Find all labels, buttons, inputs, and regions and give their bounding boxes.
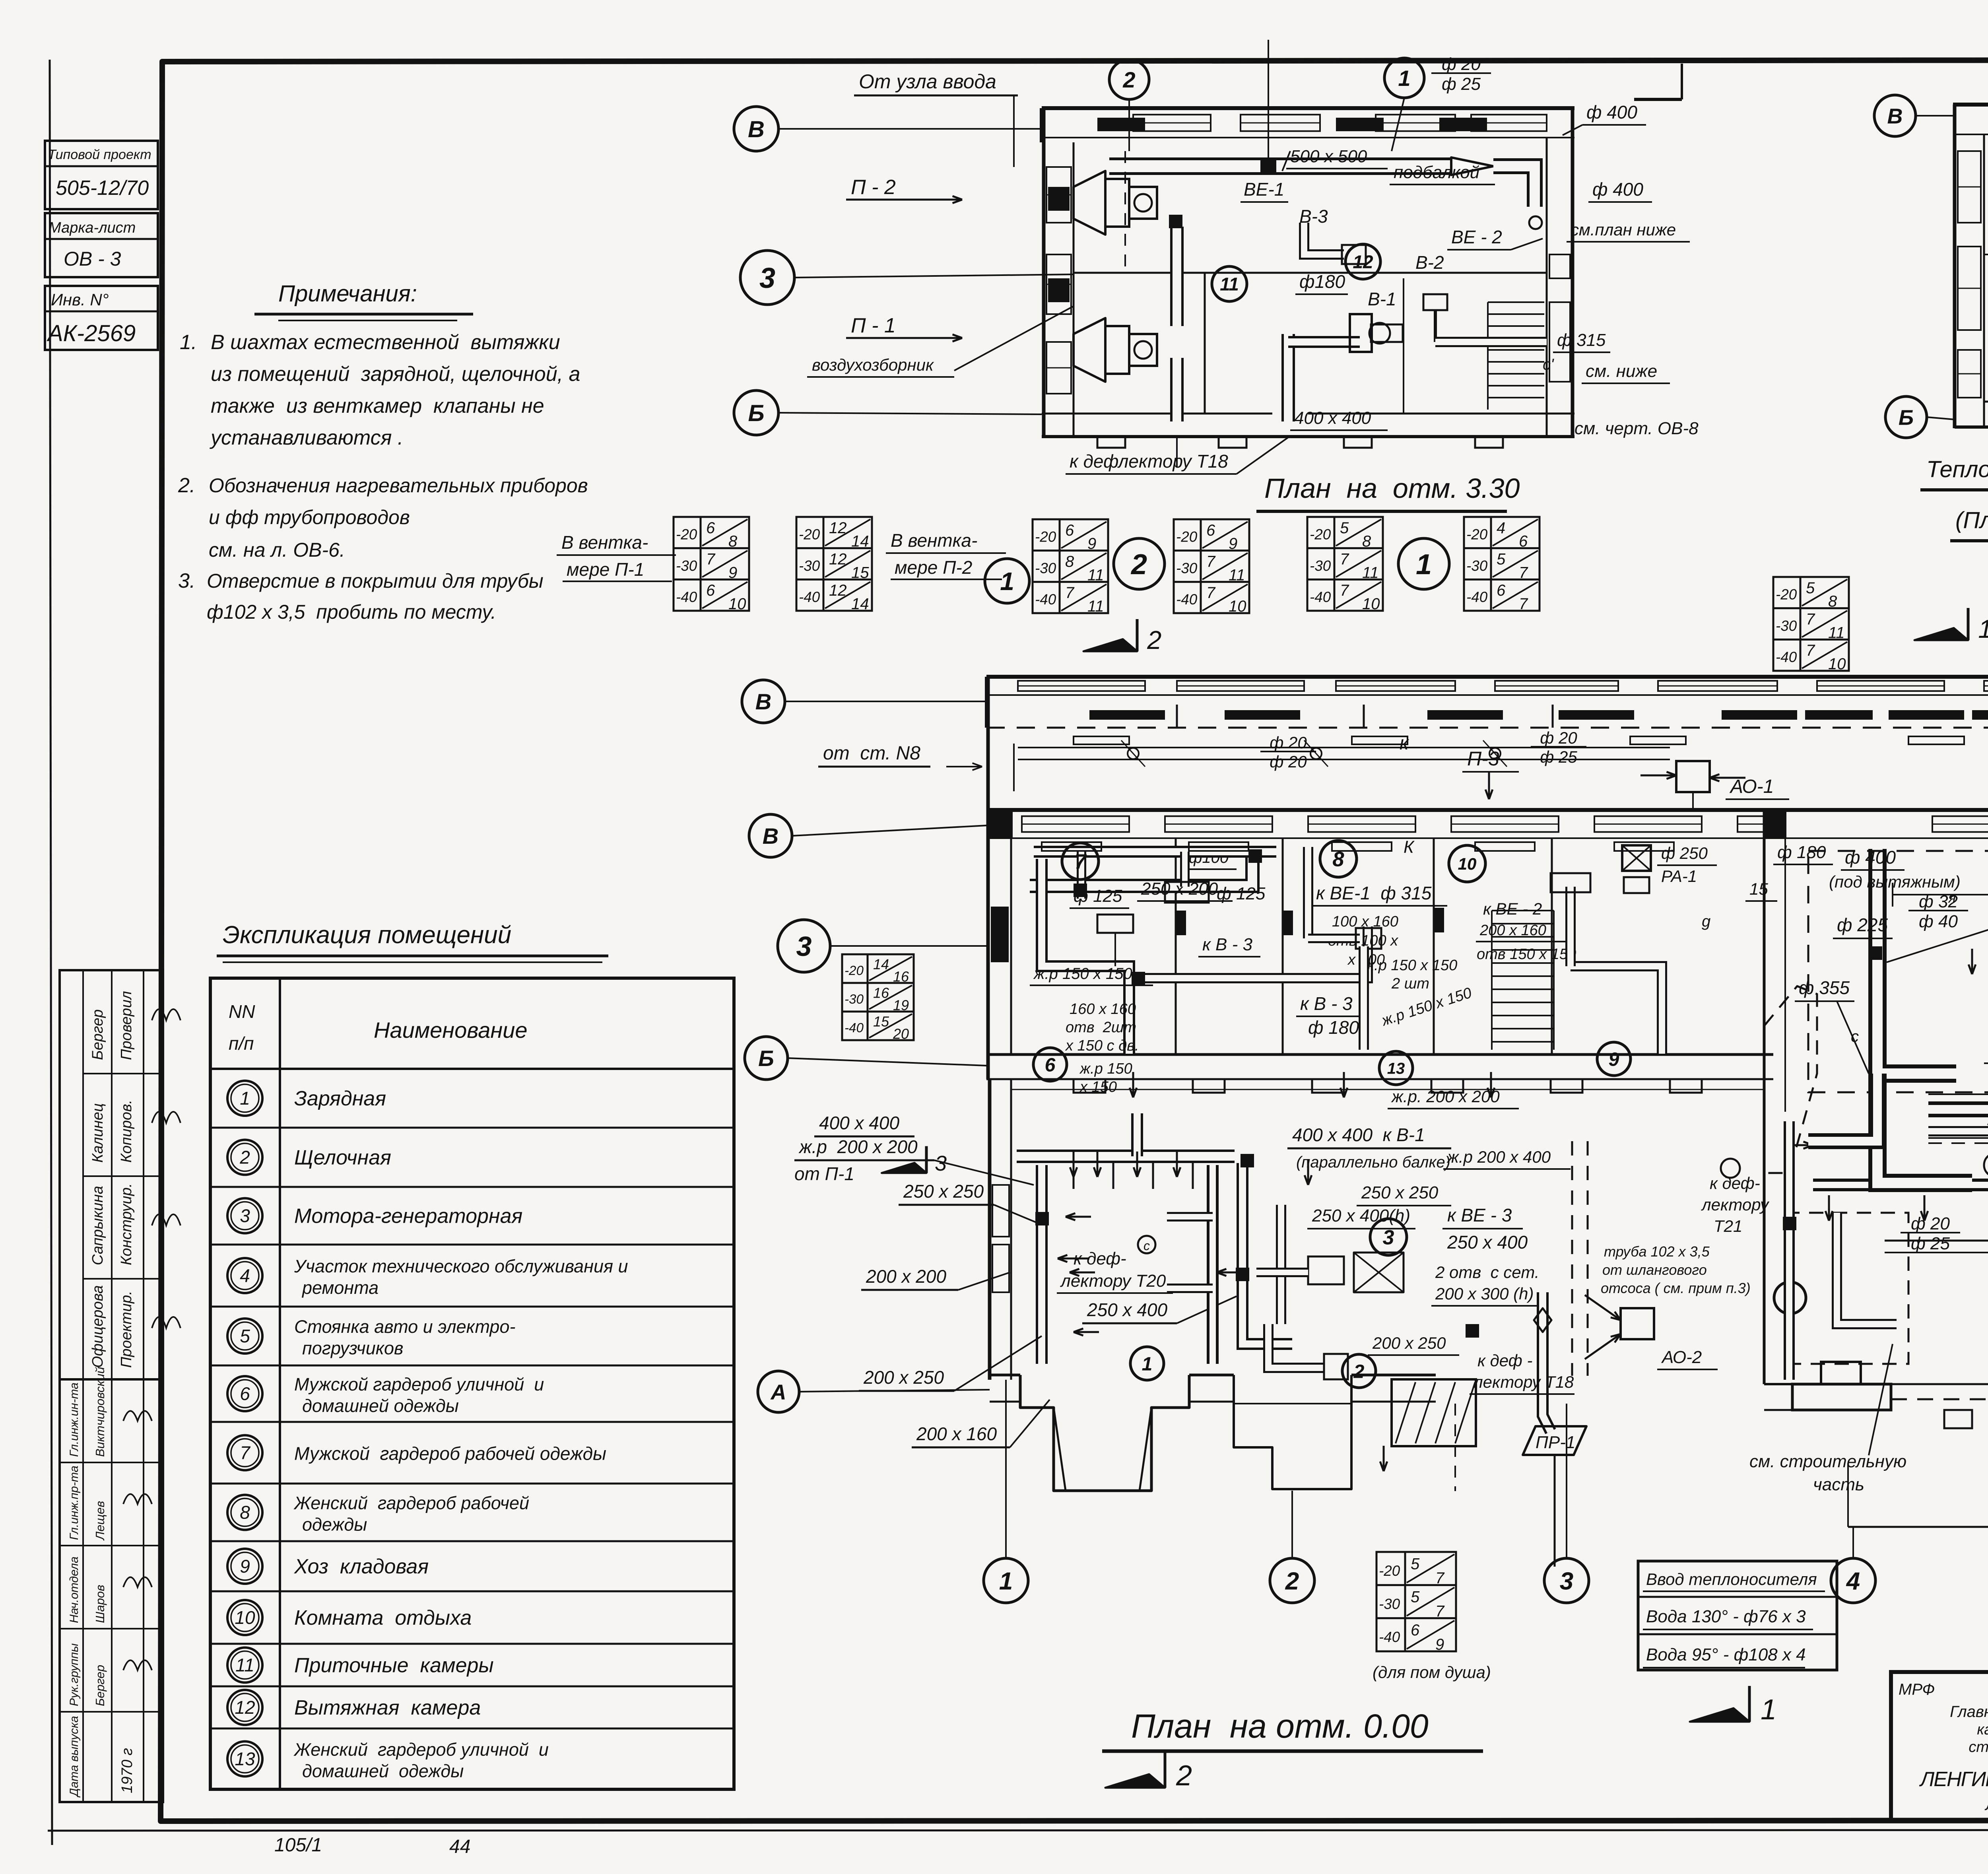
extra junction ticks top corridor	[1176, 705, 1178, 728]
title block frame	[1891, 1672, 1988, 1820]
axis circle В big lower	[749, 814, 792, 857]
svg-text:План на отм. 3.30: План на отм. 3.30	[1264, 473, 1520, 504]
radiators top band big plan	[1074, 736, 1129, 744]
ПР-1 parallelogram	[1523, 1426, 1586, 1455]
svg-text:В: В	[1887, 104, 1903, 128]
svg-text:и фф трубопроводов: и фф трубопроводов	[209, 506, 410, 528]
svg-text:ф 32: ф 32	[1919, 892, 1958, 911]
svg-text:400 х 400: 400 х 400	[819, 1113, 899, 1133]
svg-text:ж.р 150 х 150: ж.р 150 х 150	[1033, 965, 1132, 983]
svg-text:ж.р 200 х 200: ж.р 200 х 200	[798, 1136, 918, 1157]
svg-text:Офицерова: Офицерова	[89, 1285, 106, 1368]
svg-text:В-2: В-2	[1415, 252, 1444, 273]
plan 3.30 main duct	[1109, 157, 1451, 175]
svg-text:-40: -40	[845, 1021, 864, 1035]
svg-text:Гл.инж.ин-та: Гл.инж.ин-та	[68, 1383, 81, 1457]
room circle 7 big	[1062, 843, 1099, 880]
plan 3.30 fan B-2	[1423, 294, 1447, 310]
axis circle Б plan330	[734, 390, 779, 435]
svg-text:12: 12	[829, 551, 847, 568]
room circle 3 big	[1370, 1219, 1407, 1255]
svg-text:-30: -30	[1035, 560, 1056, 576]
svg-text:К: К	[1404, 837, 1415, 857]
svg-text:6: 6	[1411, 1622, 1420, 1639]
svg-text:АО-1: АО-1	[1729, 776, 1774, 797]
svg-text:16: 16	[873, 985, 889, 1001]
svg-text:250 х 400: 250 х 400	[1447, 1232, 1528, 1253]
svg-text:Нач.отдела: Нач.отдела	[68, 1557, 81, 1623]
svg-text:9: 9	[240, 1556, 250, 1577]
plan 3.30 top wall with windows	[1042, 106, 1574, 110]
svg-text:1: 1	[240, 1088, 250, 1109]
svg-text:6: 6	[1206, 522, 1215, 539]
svg-text:отсоса ( см. прим п.3): отсоса ( см. прим п.3)	[1601, 1280, 1751, 1296]
svg-text:ВЕ - 2: ВЕ - 2	[1451, 227, 1502, 247]
svg-text:х 150 с дв.: х 150 с дв.	[1065, 1037, 1139, 1054]
hall small unit circle	[1984, 1153, 1988, 1177]
svg-text:12: 12	[1353, 252, 1373, 272]
bottom axis circle 1	[984, 1558, 1028, 1603]
svg-text:4: 4	[240, 1265, 250, 1286]
svg-text:Б: Б	[1899, 406, 1914, 429]
svg-text:к В - 3: к В - 3	[1202, 935, 1252, 954]
svg-text:АК-2569: АК-2569	[47, 320, 136, 346]
plan TS bottom wall	[1955, 425, 1988, 429]
svg-text:Стоянка авто и электро-: Стоянка авто и электро-	[294, 1317, 515, 1337]
svg-text:400 х 400 к В-1: 400 х 400 к В-1	[1292, 1124, 1425, 1145]
plan 3.30 internal wall	[1074, 272, 1547, 274]
explication row 5	[210, 1306, 734, 1308]
svg-text:1: 1	[1416, 549, 1432, 581]
svg-text:МРФ: МРФ	[1899, 1681, 1935, 1698]
explication row 13	[210, 1728, 734, 1730]
room circle 8 redraw	[1320, 841, 1357, 877]
big plan funnel under room 1	[1020, 1375, 1189, 1491]
svg-text:8: 8	[1065, 553, 1074, 571]
svg-text:см. черт. ОВ-8: см. черт. ОВ-8	[1574, 419, 1699, 438]
svg-text:Женский гардероб рабочей: Женский гардероб рабочей	[293, 1493, 529, 1513]
hall bottom pillar mid	[1944, 1410, 1972, 1428]
room circle 10 redraw	[1449, 845, 1485, 882]
svg-text:-30: -30	[845, 992, 864, 1007]
svg-text:7: 7	[1206, 584, 1216, 602]
explication row 12	[210, 1686, 734, 1688]
svg-text:9: 9	[1435, 1636, 1444, 1653]
vent table 4-6	[1464, 517, 1540, 611]
svg-text:3.: 3.	[178, 569, 195, 592]
explication row 2	[210, 1127, 734, 1129]
svg-text:Дата выпуска: Дата выпуска	[68, 1716, 81, 1798]
duct central mid riser	[1242, 1163, 1292, 1344]
svg-text:РА-1: РА-1	[1661, 867, 1697, 886]
axis circle 2 in table band	[1114, 538, 1165, 589]
window bars top band extra	[1805, 710, 1873, 720]
duct central supply from P1	[1017, 1150, 1235, 1163]
svg-text:ф 20: ф 20	[1442, 54, 1481, 74]
duct room8 riser	[1303, 847, 1313, 938]
svg-text:15: 15	[873, 1013, 889, 1029]
airflow arrows	[1073, 1152, 1075, 1177]
svg-text:(План на отм.0.00 ): (План на отм.0.00 )	[1955, 507, 1988, 533]
svg-text:5: 5	[1497, 551, 1506, 568]
svg-text:Отверстие в покрытии для трубы: Отверстие в покрытии для трубы	[207, 570, 544, 592]
svg-text:5: 5	[240, 1326, 250, 1346]
svg-text:3: 3	[759, 262, 775, 294]
svg-text:В: В	[755, 689, 771, 714]
bottom axis circle 2	[1270, 1558, 1314, 1603]
svg-text:2 шт: 2 шт	[1391, 975, 1429, 992]
frame bottom thin line	[48, 1830, 1988, 1831]
plan 3.30 duct drop C	[1529, 216, 1542, 229]
plan 3.30 fan B-1	[1350, 314, 1372, 352]
svg-text:7: 7	[240, 1443, 250, 1463]
svg-text:-40: -40	[1776, 649, 1797, 665]
explication row 10	[210, 1590, 734, 1592]
svg-text:лектору: лектору	[1701, 1195, 1770, 1214]
svg-text:В шахтах естественной вытяжки: В шахтах естественной вытяжки	[211, 331, 560, 354]
svg-text:44: 44	[449, 1836, 470, 1857]
svg-text:Вытяжная камера: Вытяжная камера	[294, 1696, 481, 1719]
duct room9-10 run	[1565, 887, 1576, 966]
hall second horizontal duct	[1928, 1126, 1988, 1136]
svg-text:ф 25: ф 25	[1540, 748, 1577, 766]
svg-text:250 х 250: 250 х 250	[1361, 1183, 1439, 1202]
explication row 3	[210, 1186, 734, 1188]
svg-text:10: 10	[1458, 854, 1477, 873]
axis circle В big upper	[742, 680, 785, 723]
hall bottom thin line between pillars	[1891, 1383, 1988, 1385]
svg-text:1: 1	[1978, 614, 1988, 643]
svg-text:Приточные камеры: Приточные камеры	[294, 1654, 494, 1677]
svg-text:2: 2	[1285, 1567, 1299, 1595]
svg-text:Мужской гардероб уличной и: Мужской гардероб уличной и	[294, 1374, 544, 1394]
svg-text:Главное управление: Главное управление	[1950, 1703, 1988, 1721]
duct kv3 run	[1141, 926, 1368, 978]
svg-text:Лещев: Лещев	[93, 1501, 107, 1541]
svg-text:105/1: 105/1	[274, 1835, 322, 1856]
svg-text:ф 250: ф 250	[1661, 844, 1708, 862]
РА-1 box	[1622, 845, 1651, 871]
axis circle 3 plan330	[740, 251, 794, 305]
svg-text:Марка-лист: Марка-лист	[49, 219, 136, 236]
svg-text:План на отм. 0.00: План на отм. 0.00	[1131, 1707, 1429, 1745]
duct room7 top run	[1034, 846, 1276, 858]
svg-text:Зарядная: Зарядная	[294, 1087, 386, 1110]
svg-text:ф 400: ф 400	[1586, 102, 1637, 122]
svg-text:Участок технического обслужива: Участок технического обслуживания и	[294, 1256, 628, 1276]
vent table 12-14	[796, 517, 872, 611]
duct PR-1 drop	[1543, 1292, 1551, 1431]
svg-text:от П-1: от П-1	[794, 1163, 854, 1184]
svg-text:Б: Б	[758, 1046, 774, 1071]
АО-2 box	[1621, 1308, 1654, 1339]
svg-text:Вода 95° - ф108 х 4: Вода 95° - ф108 х 4	[1646, 1645, 1806, 1664]
axis circle В plan TS	[1874, 95, 1916, 136]
big plan left wall lower	[988, 1079, 992, 1380]
svg-text:В-1: В-1	[1368, 289, 1396, 309]
plan 3.30 stair hatch	[1488, 301, 1544, 303]
hall pipe bundle extra lines	[1928, 1093, 1988, 1095]
axis circle Б plan TS	[1885, 396, 1927, 438]
svg-text:см. на л. ОВ-6.: см. на л. ОВ-6.	[209, 539, 345, 561]
vent table П-1	[674, 517, 749, 611]
svg-text:-20: -20	[1310, 526, 1331, 543]
duct hall main vertical f400	[1877, 849, 1956, 1074]
svg-text:Комната отдыха: Комната отдыха	[294, 1606, 472, 1629]
svg-text:200 х 250: 200 х 250	[863, 1367, 944, 1388]
svg-text:мере П-2: мере П-2	[895, 557, 972, 578]
svg-text:устанавливаются .: устанавливаются .	[210, 426, 403, 449]
svg-text:15: 15	[1749, 880, 1768, 898]
svg-text:9: 9	[1609, 1049, 1619, 1070]
svg-text:200 х 160: 200 х 160	[1479, 922, 1546, 939]
svg-text:250 х 250: 250 х 250	[903, 1181, 984, 1202]
big plan locker internal walls	[1175, 838, 1177, 1054]
svg-text:ф 20: ф 20	[1540, 728, 1577, 747]
svg-text:c': c'	[1543, 356, 1554, 373]
svg-text:ф 180: ф 180	[1777, 843, 1826, 862]
svg-text:ф 40: ф 40	[1919, 912, 1958, 931]
hall f400 thick run	[1877, 1074, 1972, 1183]
svg-text:Инв. N°: Инв. N°	[51, 290, 109, 309]
svg-text:Наименование: Наименование	[374, 1018, 527, 1043]
hall lower pipe run	[1885, 1240, 1988, 1242]
svg-text:6: 6	[706, 582, 715, 599]
plan 3.30 room circle 11	[1212, 266, 1247, 301]
svg-text:5: 5	[1806, 579, 1815, 597]
svg-text:-20: -20	[676, 526, 697, 543]
svg-text:Экспликация помещений: Экспликация помещений	[223, 921, 511, 949]
axis circle 1 in table band	[985, 559, 1029, 603]
svg-text:ф 25: ф 25	[1911, 1234, 1950, 1253]
room circle 2 big	[1342, 1354, 1376, 1388]
svg-text:ПР-1: ПР-1	[1536, 1433, 1575, 1452]
duct hall long horizontal lower	[1813, 1179, 1988, 1191]
axis circle 1b in table band	[1398, 538, 1449, 589]
svg-text:от ст. N8: от ст. N8	[823, 743, 920, 764]
svg-text:ЛЕНГИПРОРЕЧТРАНС: ЛЕНГИПРОРЕЧТРАНС	[1919, 1768, 1988, 1791]
svg-text:ремонта: ремонта	[301, 1278, 379, 1298]
big plan top band left end	[985, 677, 988, 728]
svg-text:20: 20	[893, 1025, 909, 1042]
big plan locker stair	[1492, 910, 1554, 911]
svg-text:Т21: Т21	[1714, 1217, 1742, 1235]
explication row 1	[227, 1081, 262, 1116]
svg-text:к деф -: к деф -	[1477, 1351, 1532, 1370]
svg-text:2: 2	[1130, 549, 1147, 581]
svg-text:g: g	[1702, 913, 1710, 930]
svg-text:12: 12	[829, 519, 847, 537]
svg-text:лектору Т20: лектору Т20	[1060, 1271, 1166, 1291]
dashed rect room4 lower	[1785, 1213, 1908, 1364]
svg-text:1: 1	[1398, 66, 1410, 91]
big plan protrusion under room 2	[1234, 1375, 1351, 1489]
plan330 left wall black hatches	[1048, 187, 1070, 211]
svg-text:п/п: п/п	[229, 1033, 254, 1054]
svg-text:200 х 200: 200 х 200	[866, 1266, 946, 1287]
svg-text:А: А	[770, 1380, 786, 1404]
svg-text:7: 7	[1806, 642, 1815, 659]
svg-text:домашней одежды: домашней одежды	[302, 1396, 459, 1416]
svg-text:Бергер: Бергер	[89, 1009, 106, 1060]
svg-text:Теплоснабжение водоподогревате: Теплоснабжение водоподогревателей горяче…	[1926, 456, 1988, 482]
svg-text:Вода 130° - ф76 х 3: Вода 130° - ф76 х 3	[1646, 1607, 1806, 1626]
svg-text:ВЕ-1: ВЕ-1	[1244, 179, 1284, 200]
vent table 6-9 b	[1174, 519, 1249, 613]
room circle 10 big	[1449, 845, 1485, 882]
plan 3.30 supply fan П-2	[1074, 171, 1105, 235]
svg-text:-20: -20	[1776, 586, 1797, 603]
svg-text:(параллельно балке): (параллельно балке)	[1296, 1154, 1450, 1171]
big plan top band window bars	[1089, 710, 1165, 720]
double line bottom corridor	[1011, 1089, 1764, 1090]
svg-text:Виктчировский: Виктчировский	[93, 1367, 107, 1457]
rooms 1-2 duct cluster	[1207, 1165, 1219, 1364]
svg-text:10: 10	[235, 1607, 255, 1628]
big plan central block bottom wall	[990, 1374, 1020, 1377]
svg-text:-30: -30	[1176, 560, 1198, 576]
svg-text:от шлангового: от шлангового	[1602, 1262, 1707, 1278]
svg-text:из помещений зарядной, щелочн: из помещений зарядной, щелочной, а	[211, 363, 580, 386]
svg-text:От узла ввода: От узла ввода	[859, 70, 996, 93]
svg-text:-20: -20	[1035, 529, 1056, 545]
svg-text:13: 13	[1387, 1060, 1405, 1077]
flag 3 left	[925, 1146, 928, 1173]
svg-text:также из венткамер клапаны н: также из венткамер клапаны не	[211, 394, 544, 418]
svg-text:250 х 400: 250 х 400	[1087, 1299, 1167, 1320]
plan 3.30 left wall	[1042, 108, 1046, 437]
bottom axis circle 3	[1544, 1558, 1589, 1603]
central bottom extra verticals	[1566, 1404, 1567, 1455]
svg-text:ж.р 200 х 400: ж.р 200 х 400	[1446, 1148, 1551, 1166]
svg-text:Сапрыкина: Сапрыкина	[89, 1186, 106, 1265]
svg-text:ф180: ф180	[1299, 271, 1345, 292]
svg-text:Бергер: Бергер	[93, 1665, 107, 1706]
svg-text:200 х 160: 200 х 160	[916, 1423, 997, 1444]
svg-text:1: 1	[999, 1567, 1013, 1595]
svg-text:строительства: строительства	[1969, 1739, 1988, 1756]
svg-text:Обозначения нагревательных при: Обозначения нагревательных приборов	[209, 474, 588, 497]
svg-text:ж.р 150 х 150: ж.р 150 х 150	[1363, 957, 1457, 974]
svg-text:1: 1	[1142, 1354, 1153, 1375]
svg-text:2: 2	[1147, 625, 1161, 654]
svg-text:NN: NN	[229, 1001, 255, 1022]
svg-text:мере П-1: мере П-1	[567, 559, 644, 580]
svg-text:10: 10	[1362, 595, 1380, 613]
black bars main wall	[1176, 911, 1186, 935]
room circle 1 big	[1130, 1347, 1164, 1380]
svg-text:11: 11	[1220, 274, 1239, 295]
svg-text:Проверил: Проверил	[118, 991, 135, 1060]
svg-text:Хоз кладовая: Хоз кладовая	[294, 1555, 429, 1578]
explication row 8	[210, 1483, 734, 1485]
section flag 2 above plan	[1136, 619, 1139, 651]
axis circle А big	[758, 1371, 799, 1412]
svg-text:8: 8	[1333, 848, 1344, 871]
svg-text:-20: -20	[799, 526, 820, 543]
svg-text:Рук.группы: Рук.группы	[68, 1643, 81, 1706]
corridor pipes along axis B	[1018, 747, 1670, 748]
svg-text:-20: -20	[1176, 529, 1198, 545]
svg-text:ф 180: ф 180	[1308, 1017, 1359, 1038]
svg-text:П - 1: П - 1	[851, 314, 896, 337]
valve symbols corridor	[1128, 748, 1139, 759]
svg-text:лектору Т18: лектору Т18	[1472, 1373, 1574, 1391]
svg-text:-30: -30	[799, 557, 820, 574]
svg-text:В: В	[763, 823, 779, 849]
svg-text:(для пом душа): (для пом душа)	[1373, 1663, 1491, 1682]
svg-text:1: 1	[1000, 567, 1014, 596]
svg-text:10: 10	[1828, 655, 1846, 673]
bottom axis circle 4	[1831, 1558, 1875, 1603]
svg-text:х 150: х 150	[1079, 1079, 1117, 1095]
svg-text:к дефлектору Т18: к дефлектору Т18	[1070, 451, 1228, 472]
svg-text:4: 4	[1846, 1567, 1860, 1595]
section flag 1 bottom	[1748, 1686, 1751, 1722]
svg-text:Шаров: Шаров	[93, 1585, 107, 1623]
svg-text:-20: -20	[1379, 1563, 1400, 1579]
label Ввод теплоносителя box	[1638, 1561, 1837, 1670]
svg-text:-40: -40	[799, 589, 820, 605]
svg-text:2: 2	[1122, 67, 1135, 92]
explication table	[210, 978, 734, 1789]
svg-text:160 х 160: 160 х 160	[1070, 1001, 1136, 1018]
svg-text:3: 3	[1560, 1567, 1573, 1595]
svg-text:труба 102 х 3,5: труба 102 х 3,5	[1604, 1243, 1710, 1260]
svg-text:250 х 400(h): 250 х 400(h)	[1312, 1206, 1410, 1225]
svg-text:3: 3	[240, 1206, 250, 1226]
svg-text:отв 2шт: отв 2шт	[1066, 1019, 1136, 1036]
svg-text:Типовой проект: Типовой проект	[48, 147, 151, 162]
room circle 9 big	[1597, 1042, 1631, 1076]
big plan outer top band	[986, 675, 1988, 679]
svg-text:П - 2: П - 2	[851, 176, 896, 199]
plan 3.30 duct risers	[1170, 227, 1184, 326]
section flag 1 above plan	[1967, 608, 1970, 640]
vent table 5-8	[1307, 517, 1383, 611]
svg-text:АО-2: АО-2	[1661, 1348, 1702, 1367]
circled 1 top	[1384, 58, 1424, 98]
svg-text:часть: часть	[1813, 1475, 1864, 1494]
svg-text:7: 7	[706, 551, 716, 568]
plan330 top wall black bars	[1097, 118, 1145, 131]
svg-text:ф 20: ф 20	[1270, 752, 1307, 771]
plan 3.30 right wall	[1546, 138, 1548, 437]
big plan left wall upper	[986, 677, 990, 1079]
svg-text:2: 2	[239, 1147, 250, 1168]
svg-text:подбалкой: подбалкой	[1394, 163, 1479, 182]
signature table left margin	[60, 970, 163, 1802]
plan 3.30 dashed lines	[1124, 151, 1126, 270]
plan TS left wall	[1953, 105, 1957, 428]
vent table TS below caption	[1773, 577, 1849, 671]
plan 3.30 bottom wall	[1042, 413, 1272, 415]
svg-text:7: 7	[1519, 595, 1528, 613]
PR-1 down line	[1554, 1456, 1556, 1567]
vent table inside rooms 14-16	[842, 954, 914, 1040]
room circle 8 big	[1320, 841, 1357, 877]
duct room7 drop	[1042, 859, 1129, 1054]
svg-text:Примечания:: Примечания:	[278, 281, 417, 307]
svg-text:5: 5	[1411, 1589, 1420, 1606]
svg-text:-30: -30	[676, 557, 697, 574]
axis circle 3 big	[778, 920, 830, 972]
svg-text:1970 г: 1970 г	[119, 1748, 136, 1793]
duct room10 branch	[1571, 966, 1662, 1054]
svg-text:домашней одежды: домашней одежды	[302, 1761, 464, 1781]
svg-text:8: 8	[240, 1502, 250, 1523]
svg-text:отв 150 х 150: отв 150 х 150	[1477, 946, 1576, 963]
